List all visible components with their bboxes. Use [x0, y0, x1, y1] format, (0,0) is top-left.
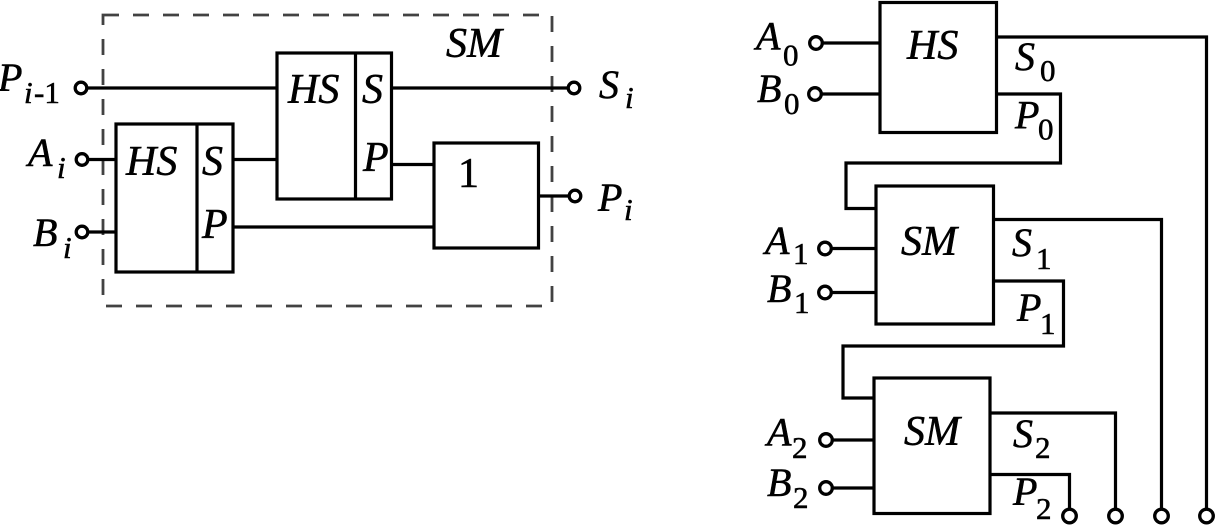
block SM2 — [874, 378, 990, 514]
svg-text:0: 0 — [784, 86, 800, 121]
label Pi-1 — [0, 55, 60, 110]
block HS1 — [116, 124, 233, 272]
svg-text:HS: HS — [906, 23, 958, 69]
label S1 — [1012, 220, 1052, 276]
terminal A0 — [810, 37, 823, 50]
wire Bi input — [87, 230, 116, 233]
label P0 — [1014, 93, 1054, 147]
wire P1 to SM2 — [843, 281, 1064, 398]
terminal Si — [568, 82, 580, 94]
label S0 — [1015, 34, 1056, 88]
wire Pi output — [539, 194, 571, 197]
label P2 — [1012, 469, 1052, 525]
wire Si output — [392, 86, 570, 89]
svg-text:HS: HS — [125, 139, 177, 185]
label B2 — [767, 460, 809, 515]
wire B1 input — [831, 291, 876, 294]
terminal S2 — [1109, 509, 1123, 523]
label Bi — [33, 210, 72, 265]
terminal A2 — [820, 434, 833, 447]
svg-text:P: P — [201, 202, 228, 248]
wire Pi-1 input — [86, 86, 277, 89]
svg-text:0: 0 — [783, 38, 799, 73]
svg-text:P: P — [1016, 285, 1041, 330]
wire A1 input — [831, 247, 876, 250]
wire HS1.S to HS2 — [233, 158, 277, 161]
wire HS2.P to OR — [392, 163, 435, 166]
terminal B1 — [819, 286, 832, 299]
svg-text:i: i — [625, 80, 634, 115]
svg-text:S: S — [1012, 220, 1032, 265]
block SM1 — [876, 186, 994, 324]
svg-text:A: A — [25, 130, 53, 175]
wire B2 input — [832, 486, 874, 489]
svg-text:0: 0 — [1040, 53, 1056, 88]
wire A0 input — [822, 41, 880, 44]
svg-text:2: 2 — [792, 430, 808, 465]
terminal P2 — [1063, 509, 1077, 523]
svg-text:A: A — [762, 218, 790, 263]
svg-text:2: 2 — [1036, 491, 1052, 525]
wire P2 output — [990, 475, 1070, 510]
terminal S0 — [1200, 509, 1214, 523]
svg-text:1: 1 — [458, 151, 479, 197]
svg-text:2: 2 — [1035, 430, 1051, 465]
svg-text:1: 1 — [1036, 241, 1052, 276]
wire S2 output — [990, 413, 1116, 509]
svg-text:A: A — [753, 14, 781, 59]
svg-text:i: i — [624, 192, 633, 227]
svg-text:SM: SM — [901, 219, 959, 265]
wire A2 input — [832, 438, 874, 441]
svg-text:A: A — [764, 410, 792, 455]
svg-text:P: P — [1014, 93, 1039, 138]
wire Ai input — [87, 158, 116, 161]
svg-text:i: i — [57, 150, 66, 185]
svg-text:B: B — [767, 266, 791, 311]
svg-text:B: B — [757, 66, 781, 111]
svg-text:S: S — [362, 67, 383, 113]
svg-text:B: B — [767, 460, 791, 505]
wire S1 output — [994, 220, 1162, 510]
terminal S1 — [1155, 509, 1169, 523]
svg-text:P: P — [1012, 469, 1037, 514]
svg-text:1: 1 — [794, 285, 810, 320]
label A2 — [764, 410, 808, 466]
label P1 — [1016, 285, 1056, 341]
label Si — [599, 62, 634, 115]
terminal Pi-1 — [75, 82, 87, 94]
wire P0 to SM1 — [846, 94, 1061, 209]
label A0 — [753, 14, 799, 73]
wire S0 output — [997, 37, 1207, 509]
label Pi — [597, 175, 633, 227]
label A1 — [762, 218, 809, 271]
svg-text:SM: SM — [904, 409, 962, 455]
block HS (right) — [880, 3, 997, 133]
svg-text:S: S — [1015, 34, 1035, 79]
svg-text:S: S — [202, 139, 223, 185]
svg-text:S: S — [1013, 411, 1033, 456]
svg-text:-1: -1 — [34, 75, 60, 110]
label B0 — [757, 66, 800, 121]
terminal B0 — [809, 88, 822, 101]
svg-text:SM: SM — [446, 21, 504, 67]
svg-text:P: P — [597, 175, 622, 220]
label S2 — [1013, 411, 1051, 465]
terminal Ai — [76, 154, 88, 166]
svg-text:0: 0 — [1038, 112, 1054, 147]
svg-text:P: P — [0, 55, 22, 100]
svg-text:HS: HS — [287, 67, 339, 113]
svg-text:P: P — [362, 135, 389, 181]
svg-text:1: 1 — [1040, 306, 1056, 341]
block HS2 — [277, 53, 392, 199]
svg-text:1: 1 — [793, 236, 809, 271]
svg-text:i: i — [63, 230, 72, 265]
dashed box SM — [103, 15, 552, 306]
svg-text:B: B — [33, 210, 57, 255]
label Ai — [25, 130, 66, 185]
terminal B2 — [820, 482, 833, 495]
terminal Pi — [569, 190, 581, 202]
svg-text:2: 2 — [793, 480, 809, 515]
svg-text:i: i — [24, 75, 33, 110]
terminal Bi — [76, 226, 88, 238]
gate OR 1 — [434, 143, 539, 248]
wire HS1.P to OR — [233, 225, 434, 228]
terminal A1 — [819, 242, 832, 255]
label B1 — [767, 266, 810, 320]
svg-text:S: S — [599, 62, 619, 107]
wire B0 input — [821, 92, 880, 95]
